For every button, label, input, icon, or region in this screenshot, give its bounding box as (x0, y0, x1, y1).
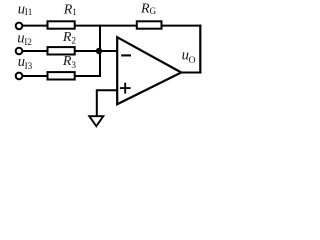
svg-text:I3: I3 (25, 61, 33, 71)
wire op-amp non-inverting input (97, 89, 118, 91)
svg-text:3: 3 (71, 60, 76, 70)
wire non-inverting input down to ground (96, 89, 98, 116)
wire input3 to R3 (22, 75, 48, 77)
label uI1 (18, 1, 33, 17)
svg-text:O: O (189, 55, 196, 66)
resistor RG (137, 21, 162, 28)
svg-text:2: 2 (71, 36, 76, 46)
op-amp minus sign (121, 54, 131, 56)
terminal uI3 (16, 73, 23, 80)
svg-text:R: R (63, 3, 73, 18)
terminal uI2 (16, 48, 23, 55)
svg-text:I1: I1 (25, 7, 33, 17)
wire top node to RG (99, 25, 137, 27)
label R2 (62, 30, 77, 46)
svg-text:R: R (62, 54, 72, 69)
resistor R1 (48, 21, 75, 28)
label R3 (62, 54, 77, 70)
terminal uI1 (16, 23, 23, 30)
wire input1 to R1 (22, 25, 48, 27)
label uI3 (18, 54, 33, 71)
wire node to op-amp inverting input (100, 50, 118, 52)
wire R3 to vertical join (74, 75, 101, 77)
wire RG to output corner (161, 25, 202, 27)
wire input2 to R2 (22, 50, 48, 52)
svg-text:G: G (150, 6, 157, 16)
svg-text:R: R (140, 2, 150, 17)
label RG (140, 2, 157, 17)
svg-text:I2: I2 (24, 37, 32, 47)
label uO (182, 48, 196, 66)
label R1 (63, 3, 78, 18)
node dot inverting input junction (96, 48, 102, 54)
svg-text:R: R (62, 30, 72, 45)
resistor R2 (48, 47, 75, 54)
op-amp plus sign (120, 87, 131, 89)
wire R2 to inverting input node (74, 50, 100, 52)
wire output of op-amp (180, 72, 202, 74)
wire vertical right side feedback to output (199, 25, 201, 73)
wire vertical joining R1,R2,R3 branches at x=100 (99, 26, 101, 76)
svg-text:1: 1 (72, 7, 77, 17)
ground symbol (89, 116, 103, 126)
wire R1 to feedback line / top node (74, 25, 101, 27)
label uI2 (17, 30, 32, 47)
resistor R3 (48, 72, 75, 79)
op-amp U1 (117, 37, 181, 104)
